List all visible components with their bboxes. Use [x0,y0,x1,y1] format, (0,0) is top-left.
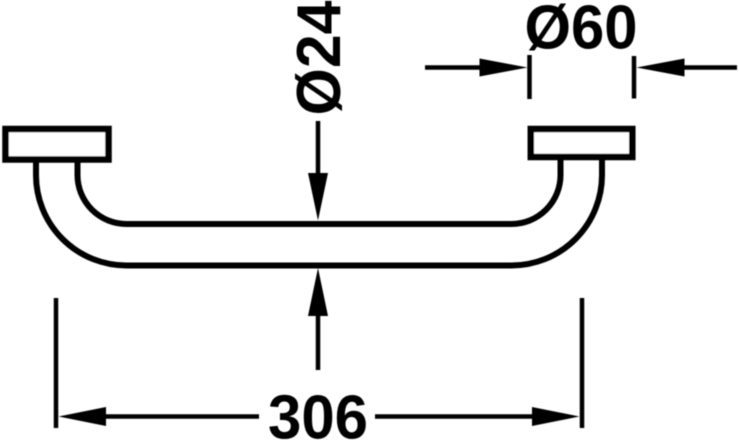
Ø24 lower dimension arrow line [316,310,321,370]
right wall flange [531,129,633,157]
306 dimension line left segment [100,414,259,419]
Ø24 lower arrowhead [308,268,328,316]
left wall flange [6,129,109,160]
Ø60 left extension tick [527,55,532,99]
svg-text:Ø60: Ø60 [525,0,638,63]
306 dimension line right segment [375,414,533,419]
Ø60 right extension tick [632,56,637,99]
306 right extension line [580,298,585,428]
grab bar tube outer outline [36,155,602,266]
svg-text:Ø24: Ø24 [285,0,354,115]
Ø24 upper arrowhead [308,173,328,221]
Ø60 left arrow line [425,65,485,70]
svg-text:306: 306 [268,384,368,440]
306 left arrowhead [59,407,107,426]
Ø60 left arrowhead [480,59,528,77]
Ø60 right arrow line [680,65,737,70]
Ø24 upper dimension arrow line [316,121,321,180]
grab bar tube inner outline [78,155,561,224]
Ø60 right arrowhead [637,59,685,77]
306 right arrowhead [532,407,580,426]
306 left extension line [54,298,59,428]
